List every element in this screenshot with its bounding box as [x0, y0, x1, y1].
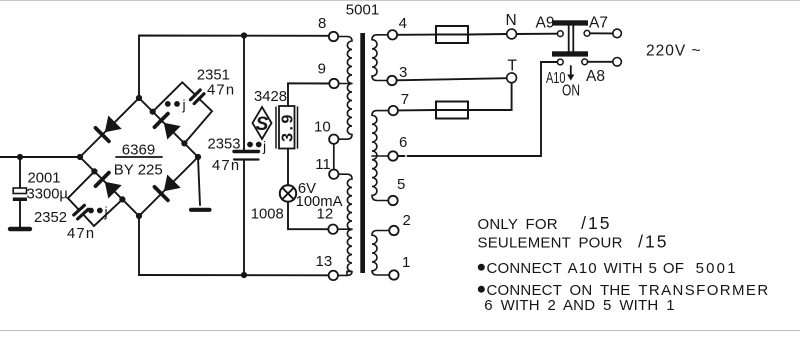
bullet 1 [478, 264, 485, 271]
node C2352 lower tap [119, 196, 125, 202]
pin 5 terminal [388, 196, 397, 205]
capacitor C2353 47n [234, 36, 259, 276]
svg-text:A9: A9 [536, 15, 555, 32]
pin 6 terminal [388, 151, 397, 160]
wire pin 3 to T [397, 78, 507, 80]
node bridge top vertex [136, 95, 142, 101]
pin 13 terminal [329, 271, 338, 280]
svg-text:6: 6 [399, 134, 407, 151]
svg-text:N: N [506, 12, 517, 29]
svg-text:3300µ: 3300µ [27, 187, 69, 203]
svg-text:A8: A8 [586, 68, 605, 85]
svg-text:2001: 2001 [28, 171, 61, 187]
svg-text:1008: 1008 [251, 207, 284, 223]
capacitor C2352 47n across bottom-left diode [68, 171, 123, 226]
svg-text:6 WITH 2 AND 5 WITH 1: 6 WITH 2 AND 5 WITH 1 [484, 297, 674, 314]
svg-text:220V ~: 220V ~ [646, 43, 702, 60]
contact A9 [557, 31, 563, 37]
contact A8 [582, 59, 588, 65]
svg-text:ONLY FOR /15: ONLY FOR /15 [478, 213, 612, 233]
svg-text:10: 10 [314, 119, 331, 136]
safety symbol S-in-diamond for R3428 [253, 107, 272, 139]
svg-text:11: 11 [315, 156, 331, 173]
winding left section 11-12-13 [338, 174, 352, 275]
svg-text:j: j [182, 97, 186, 113]
switch S mains double-pole [552, 20, 590, 65]
svg-text:SEULEMENT POUR /15: SEULEMENT POUR /15 [478, 232, 669, 252]
node junction top rail / C2353 [241, 32, 247, 38]
svg-text:13: 13 [316, 253, 333, 270]
wire bridge bottom to bottom rail [138, 216, 140, 275]
node T terminal [507, 73, 517, 83]
pin 7 terminal [389, 106, 398, 115]
svg-text:T: T [508, 58, 518, 75]
contact A10 [557, 59, 563, 65]
capacitor C2001 3300u electrolytic [10, 157, 30, 229]
wire resistor top to pin 9 [288, 83, 329, 106]
switch bottom bar [552, 51, 588, 56]
fuse F1 [436, 26, 468, 43]
diode D4 bottom-right edge [155, 175, 181, 201]
fuse F2 [436, 102, 468, 119]
svg-text:j: j [104, 204, 108, 220]
svg-text:3.9: 3.9 [280, 112, 297, 142]
node C2351 lower tap [181, 140, 187, 146]
capacitor C2351 47n across top-right diode [153, 82, 212, 143]
node C2351 upper tap [150, 109, 156, 115]
svg-text:3: 3 [399, 64, 407, 81]
wire A7 contact to terminal [590, 32, 613, 34]
arrow ON direction [567, 66, 574, 81]
wire top rail from bridge top to pin 8 [139, 36, 329, 99]
bullet 2 [478, 286, 485, 293]
svg-text:7: 7 [401, 91, 409, 108]
marking dots j for C2351 [165, 101, 171, 107]
svg-text:8: 8 [318, 15, 326, 32]
wire pin 6 dashed stub [398, 155, 404, 157]
node N terminal [507, 29, 517, 39]
node bridge bottom vertex [136, 213, 142, 219]
svg-text:ON: ON [562, 83, 580, 100]
wire pin 4 to fuse F1 [397, 34, 436, 36]
node bridge left vertex [77, 154, 83, 160]
terminal A7 circle [613, 29, 622, 38]
svg-text:2351: 2351 [197, 68, 230, 84]
bottom border line [0, 330, 800, 332]
svg-text:47n: 47n [207, 83, 235, 99]
wire fuse F1 to N [468, 33, 507, 36]
wire resistor bottom to lamp [287, 149, 289, 186]
node bridge right vertex [195, 154, 201, 160]
lamp LA1008 6V 100mA [280, 185, 296, 201]
wire left rail to left edge [0, 156, 80, 158]
bridge rectifier U 6369 BY225 diamond [80, 98, 198, 216]
svg-text:S: S [256, 114, 269, 135]
pin 10 terminal [329, 135, 338, 144]
node junction left rail / C2001 [17, 154, 23, 160]
wire pin 6 to switch contact A10 [408, 62, 558, 156]
svg-text:3428: 3428 [254, 89, 287, 105]
svg-text:12: 12 [317, 206, 334, 223]
winding right section 7-6-5 [372, 111, 388, 201]
pin 2 terminal [389, 226, 398, 235]
pin 1 terminal [389, 270, 398, 279]
pin 4 terminal [388, 30, 397, 39]
wire N to switch contact A9 [517, 33, 558, 35]
wire bottom rail to pin 13 [139, 274, 329, 276]
transformer core [360, 33, 365, 273]
pin 8 terminal [329, 32, 338, 41]
pin 11 terminal [329, 170, 338, 179]
svg-text:9: 9 [318, 61, 326, 78]
winding right section 2-1 [372, 231, 389, 276]
resistor R3428 3.9 ohm [276, 106, 298, 149]
wire link pin10 to pin11 [333, 144, 335, 170]
svg-text:4: 4 [399, 15, 407, 32]
wire A8 contact to terminal [588, 61, 613, 63]
svg-text:BY 225: BY 225 [114, 162, 163, 179]
ground bar under bridge right vertex [191, 157, 210, 210]
terminal A8 circle [613, 58, 622, 67]
contact A7 [584, 30, 590, 36]
marking dots j for C2353 [247, 142, 253, 148]
marking dots j for C2352 [88, 208, 94, 214]
svg-text:47n: 47n [67, 226, 95, 242]
svg-text:6369: 6369 [122, 141, 155, 158]
svg-text:j: j [262, 138, 266, 154]
svg-text:47n: 47n [212, 158, 240, 174]
winding left section 8-9-10 [338, 37, 352, 140]
pin 12 terminal [328, 225, 337, 234]
pin 9 terminal [329, 79, 338, 88]
svg-text:1: 1 [402, 254, 410, 271]
svg-text:2: 2 [403, 212, 411, 229]
top border line [0, 0, 800, 2]
svg-text:CONNECT A10 WITH 5 OF 5001: CONNECT A10 WITH 5 OF 5001 [487, 260, 738, 277]
wire lamp to pin 12 [288, 202, 328, 230]
note text block [478, 213, 770, 314]
svg-text:A7: A7 [589, 15, 608, 32]
switch shaft [568, 26, 570, 52]
svg-text:2353: 2353 [208, 137, 241, 153]
winding right section 4-3 [372, 35, 388, 81]
svg-text:5001: 5001 [346, 2, 379, 19]
node C2352 upper tap [91, 168, 97, 174]
diode D3 top-right edge [155, 114, 181, 140]
wire pin 7 to fuse F2 [398, 109, 436, 111]
svg-text:2352: 2352 [34, 210, 67, 226]
switch top bar [552, 20, 588, 25]
pin 3 terminal [387, 76, 396, 85]
svg-text:5: 5 [397, 176, 405, 193]
node junction bottom rail / C2353 [241, 272, 247, 278]
diode D2 bottom-left edge [96, 173, 122, 199]
diode D1 top-left edge [96, 116, 122, 142]
wire fuse F2 up to T [468, 83, 512, 110]
